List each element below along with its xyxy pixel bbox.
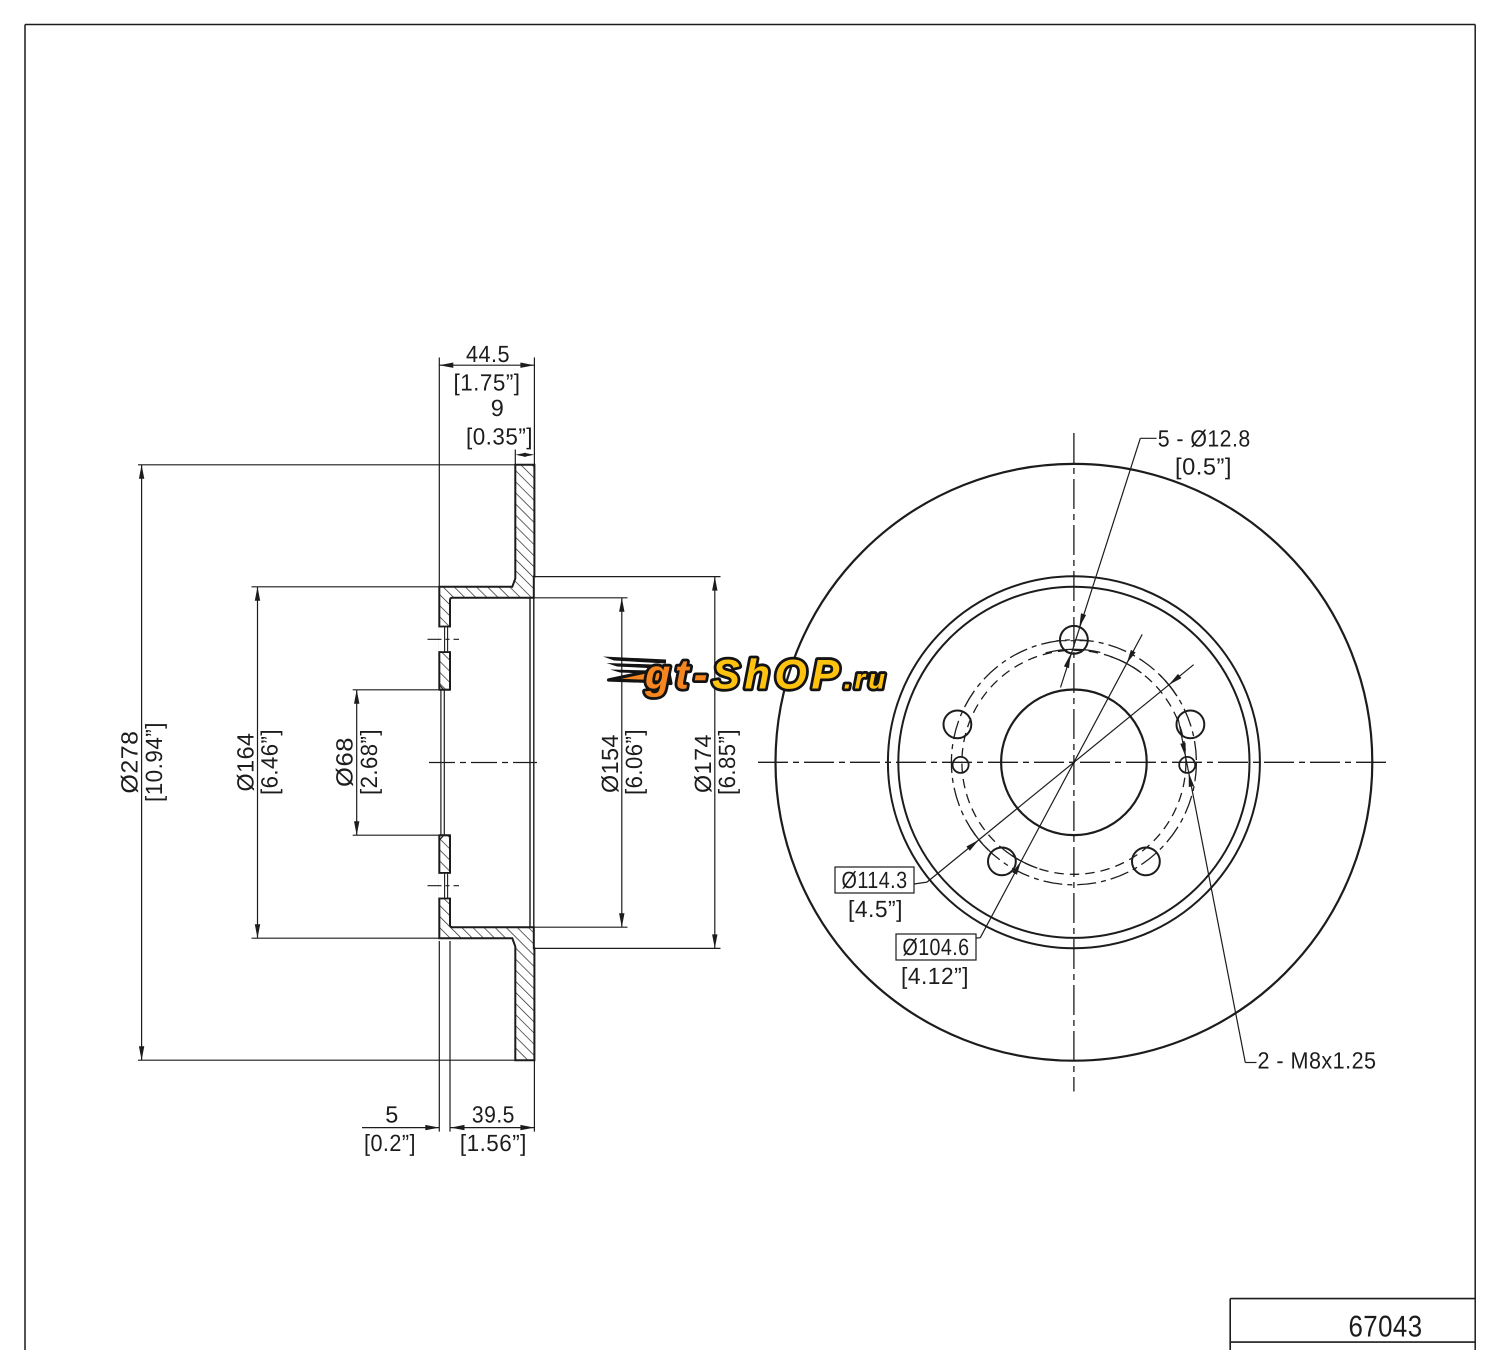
- svg-text:Ø114.3: Ø114.3: [842, 867, 908, 893]
- svg-text:[1.75”]: [1.75”]: [454, 370, 521, 396]
- svg-text:44.5: 44.5: [466, 341, 510, 367]
- svg-text:Ø164: Ø164: [232, 733, 258, 792]
- svg-text:[6.46”]: [6.46”]: [257, 729, 283, 795]
- svg-text:[0.2”]: [0.2”]: [364, 1130, 416, 1156]
- svg-text:[0.35”]: [0.35”]: [466, 424, 533, 450]
- svg-text:39.5: 39.5: [472, 1101, 515, 1127]
- svg-text:[1.56”]: [1.56”]: [460, 1130, 527, 1156]
- svg-text:2 - M8x1.25: 2 - M8x1.25: [1258, 1048, 1377, 1074]
- svg-text:9: 9: [491, 395, 505, 421]
- svg-text:Ø278: Ø278: [116, 731, 142, 794]
- svg-text:Ø174: Ø174: [690, 734, 716, 793]
- svg-text:67043: 67043: [1349, 1311, 1423, 1344]
- svg-text:[6.06”]: [6.06”]: [621, 729, 647, 795]
- svg-text:Ø154: Ø154: [597, 734, 623, 793]
- svg-text:5: 5: [385, 1101, 399, 1127]
- svg-text:[4.12”]: [4.12”]: [901, 963, 969, 989]
- svg-text:[2.68”]: [2.68”]: [356, 729, 382, 795]
- svg-text:[6.85”]: [6.85”]: [714, 729, 740, 795]
- svg-text:5 - Ø12.8: 5 - Ø12.8: [1158, 425, 1251, 451]
- svg-text:[4.5”]: [4.5”]: [848, 896, 903, 922]
- svg-text:[0.5”]: [0.5”]: [1175, 454, 1232, 480]
- svg-text:Ø104.6: Ø104.6: [903, 934, 970, 960]
- svg-text:Ø68: Ø68: [332, 737, 358, 787]
- svg-text:[10.94”]: [10.94”]: [141, 722, 167, 802]
